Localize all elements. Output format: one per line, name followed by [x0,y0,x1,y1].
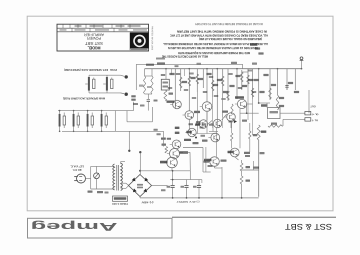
socket row rails [58,110,134,112]
svg-text:OUT: OUT [310,104,316,107]
svg-text:IN CASE ANYTHING IS FOUND WRON: IN CASE ANYTHING IS FOUND WRONG WITH THE… [176,30,267,34]
header rule [172,216,336,218]
svg-text:MODEL: MODEL [87,46,100,51]
title block frame [57,24,149,51]
svg-text:ALL VOLTAGES READ TO CHASSIS G: ALL VOLTAGES READ TO CHASSIS GROUND WITH… [169,34,268,38]
primary loop [86,178,91,180]
svg-text:TRIAD F-90X: TRIAD F-90X [112,202,128,205]
svg-text:SST & SBT: SST & SBT [285,222,332,231]
lower mesh [165,147,168,154]
jack J1 [106,77,108,91]
bridge rectifier [129,175,152,197]
output terminal dots [121,75,125,76]
lower transistors [172,140,181,149]
svg-text:Ampeg: Ampeg [30,220,117,232]
transistors upper [173,100,182,109]
AC plug [77,174,86,183]
jack wires [89,74,121,76]
supply terminal [301,60,303,69]
relay box [161,79,169,90]
upper mesh extra labels [161,74,165,76]
svg-text:POWER: POWER [87,36,101,41]
bridge connections [139,153,141,175]
svg-text:PRINTED IN USA 1966: PRINTED IN USA 1966 [151,26,154,51]
OL terminals [294,90,296,113]
svg-text:IN CASE OF TROUBLE RETURN THIS: IN CASE OF TROUBLE RETURN THIS UNIT TO F… [194,22,263,26]
top supply bus [145,68,302,70]
socket at x=104 [101,111,103,114]
svg-text:MAIN SPEAKER JACK (SPKR FUSE): MAIN SPEAKER JACK (SPKR FUSE) [63,96,105,99]
upper mesh verticals [174,69,176,100]
svg-text:OL -7: OL -7 [311,119,318,122]
svg-text:(-) 45 V. SUPPLY: (-) 45 V. SUPPLY [176,200,199,203]
socket at x=90 [87,111,89,114]
upper mesh resistors [179,77,182,88]
svg-text:(MEASURED NO SIGNAL VOLUME CON: (MEASURED NO SIGNAL VOLUME CONTROLS AT M… [199,37,262,41]
title block row text [75,25,82,27]
connector stubs with dots [128,131,130,150]
jack J2 [88,77,90,91]
power transformer [113,164,115,190]
svg-text:WELL AS SHORT CIRCUITS ACROSS: WELL AS SHORT CIRCUITS ACROSS THE [162,55,208,59]
extended verticals [196,92,198,134]
output network [136,63,242,65]
svg-text:OL +7: OL +7 [311,113,318,116]
page border [27,16,333,211]
DC rails [140,170,190,172]
filter caps [171,185,175,187]
upper mesh labels [169,73,174,75]
svg-text:117 V.A.C.: 117 V.A.C. [70,165,84,168]
Ampeg circle logo [130,32,149,50]
svg-text:POD: POD [110,68,117,71]
socket at x=62 [59,111,61,114]
breaker box [266,103,268,108]
breaker [94,173,100,179]
svg-text:(-) 45V: (-) 45V [141,200,154,203]
svg-text:RESISTORS 1/2 WATT UNLESS OTHE: RESISTORS 1/2 WATT UNLESS OTHERWISE NOTE… [167,46,258,50]
svg-text:SST SBT: SST SBT [84,41,103,46]
socket row interconnects [114,111,116,132]
right column [259,102,270,104]
Ampeg logo box [28,218,173,238]
switch labels [88,191,93,193]
7 ohm labels [131,95,135,97]
svg-text:EXT. SPEAKER JACK (SPKR FUSE): EXT. SPEAKER JACK (SPKR FUSE) [64,68,108,71]
mid interconnects [174,100,176,109]
svg-text:60 CY.: 60 CY. [72,168,81,171]
socket at x=76 [73,111,75,114]
transformer label box [113,196,128,201]
svg-text:MFD THE POWER AMPLIFIER CHASSI: MFD THE POWER AMPLIFIER CHASSIS IS EQUIP… [177,51,250,55]
